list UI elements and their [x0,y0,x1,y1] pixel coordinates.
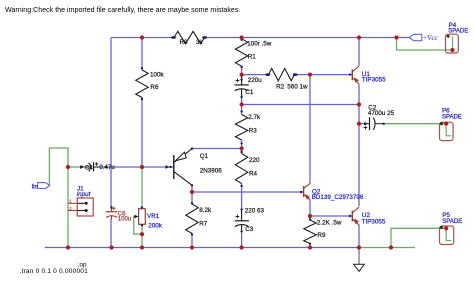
svg-text:SPADE: SPADE [442,219,462,225]
transistor Q2 BD139 [300,183,364,201]
wire R1 to C1 node [241,66,243,77]
node gnd-R7 [190,245,194,249]
svg-text:C4: C4 [85,165,93,171]
svg-text:220: 220 [249,157,260,164]
resistor R6 [136,67,165,100]
node R2-Q2C [308,73,312,77]
svg-text:560 1w: 560 1w [287,84,308,91]
transistor U1 TIP3055 [349,66,386,84]
svg-text:P6: P6 [442,108,450,115]
wire ground rail green segment [359,247,415,249]
svg-text:200k: 200k [148,223,163,230]
wire Iin to C4 (green) [68,166,81,168]
svg-text:R8: R8 [180,39,189,46]
svg-text:input: input [77,191,91,198]
wire Q1 collector to Q2 base [192,191,304,193]
svg-text:TIP3055: TIP3055 [362,76,386,83]
wire U1 collector to top rail [358,38,360,66]
node gnd-C3 [240,245,244,249]
connector J1 input [68,185,93,216]
wire C4 to Q1 base [97,166,173,168]
svg-text:R2: R2 [276,84,285,91]
node R1-C1-R2 [240,73,244,77]
node top-U1C [357,35,361,39]
ground [354,248,365,272]
wire top rail right segment [205,37,397,39]
node gnd-R9 [308,245,312,249]
wire ground rail [45,247,359,249]
resistor R4 [235,151,260,187]
wire C2 left lead [359,123,366,125]
connector P5 SPADE [440,212,463,244]
node gnd-C6 [109,245,113,249]
wire C2 to P6 (green) [384,123,447,125]
wire left Vcc rail upper [110,38,112,209]
svg-text:2N3906: 2N3906 [200,168,223,175]
node top-Vcc [394,35,398,39]
resistor R2 [265,68,308,90]
svg-text:C3: C3 [245,226,254,233]
wire R3 bottom lead [241,140,243,149]
wire VR1 top lead (green) [141,167,143,209]
node top-R1 [240,35,244,39]
flag +Vcc [409,34,438,42]
wire Q1 collector down [191,185,193,192]
svg-text:C1: C1 [245,89,254,96]
potentiometer VR1 [135,206,163,229]
wire R1 top lead [241,38,243,40]
wire Q2 emitter down to node [309,200,311,220]
connector P4 SPADE [446,22,469,53]
svg-text:BD139_C2973796: BD139_C2973796 [312,194,364,201]
resistor R3 [235,110,261,144]
svg-text:R6: R6 [150,84,159,91]
wire input net (green) down to ground rail [67,167,69,248]
wire R7 top lead [191,192,193,204]
wire left Vcc rail lower [110,219,112,247]
wire U2 emitter to ground rail [358,225,360,248]
node P6 pin [444,122,448,126]
svg-text:R7: R7 [199,220,208,227]
capacitor C1 [235,77,263,99]
node C2-left [357,122,361,126]
wire C1 to R3 node [241,96,243,115]
svg-text:R3: R3 [249,127,258,134]
node gnd-P5 [389,245,393,249]
resistor R7 [186,202,212,236]
node gnd-VR1 [140,245,144,249]
wire R4 top lead [241,149,243,154]
node P5 pin [444,226,448,230]
node Q1C-R7 [190,190,194,194]
svg-text:4700u 25: 4700u 25 [368,110,395,117]
svg-text:R4: R4 [249,171,258,178]
node R6-base [140,165,144,169]
node R3-R4 [240,146,244,150]
node U1E [357,102,361,106]
svg-text:100u: 100u [118,217,131,223]
wire U2 base [310,215,352,217]
node gnd-input [66,245,70,249]
resistor R8 [171,31,207,46]
svg-text:8.2k: 8.2k [199,207,212,214]
resistor R1 [235,39,271,69]
svg-text:P5: P5 [442,212,450,219]
svg-text:100k: 100k [150,72,165,79]
svg-text:SPADE: SPADE [448,28,468,34]
capacitor C3 [235,207,265,233]
wire U1 emitter down to U2 collector [358,84,360,206]
connector P6 SPADE [440,108,462,141]
wire top rail left segment [111,37,173,39]
svg-text:100r .5w: 100r .5w [247,40,272,47]
svg-text:SPADE: SPADE [442,115,462,121]
svg-text:Warning:Check the imported fil: Warning:Check the imported file carefull… [5,6,240,14]
capacitor C6 (supply filter) [106,206,131,223]
svg-text:Q1: Q1 [200,153,209,160]
capacitor C4 [80,162,115,171]
wire VR1 bottom lead (green) [141,224,143,247]
flag Iin [32,183,50,191]
wire +Vcc to P4 (green) [397,38,453,51]
wire VR1 wiper loop (green) [134,217,142,235]
wire Q1 emitter to R3/R4 node [192,148,242,150]
svg-text:2.2K .5w: 2.2K .5w [317,219,342,226]
svg-text:R1: R1 [248,54,257,61]
node top-R6 [140,35,144,39]
svg-text:TIP3055: TIP3055 [362,218,386,225]
transistor U2 TIP3055 [349,207,386,225]
svg-text:0.47u: 0.47u [99,164,115,171]
svg-text:.tran 0 0.1 0 0.000001: .tran 0 0.1 0 0.000001 [20,268,89,275]
wire R6 branch upper [141,38,143,71]
resistor R9 [304,218,342,245]
node VR1 wiper [140,232,144,236]
node input-C4 [66,165,70,169]
wire C1 bottom to U1 emitter rail [242,104,359,106]
wire R9 bottom lead [309,244,311,248]
svg-text:220u: 220u [248,77,263,84]
svg-text:+Vcc: +Vcc [423,35,438,42]
wire R7 bottom lead [191,234,193,248]
node gnd-U2E [357,245,361,249]
wire C1 node to R2 [242,74,269,76]
wire to +Vcc flag [397,37,410,39]
svg-text:VR1: VR1 [147,213,160,220]
wire ground rail to P5 (green) [391,228,446,247]
wire R2 to U1 base [295,74,353,76]
wire input net (green) from Iin flag [49,148,68,186]
capacitor C2 [364,105,395,131]
svg-text:2.7k: 2.7k [248,114,261,121]
svg-text:Iin: Iin [32,184,38,190]
node Q2E-R9-U2B [308,214,312,218]
wire C3 bottom lead [241,231,243,248]
svg-text:3k: 3k [196,39,204,46]
wire R6 branch lower [141,98,143,168]
node P4 pin [450,48,454,52]
transistor Q1 2N3906 [166,147,223,186]
wire R4 to C3 [241,184,243,211]
svg-text:220 63: 220 63 [245,207,265,214]
node C1-R3 [240,102,244,106]
wire R2 node down to Q2 collector [309,75,311,184]
svg-text:R9: R9 [317,232,326,239]
svg-text:1: 1 [69,199,72,204]
